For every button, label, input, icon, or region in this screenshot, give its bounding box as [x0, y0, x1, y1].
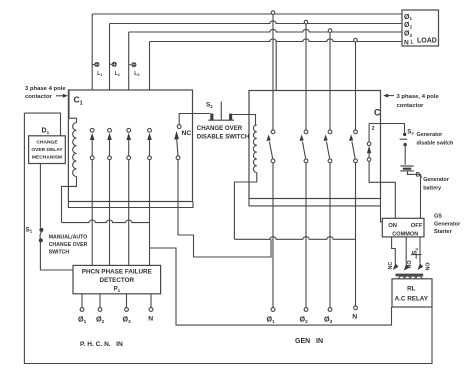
svg-text:COMMON: COMMON [392, 231, 418, 237]
wire border loop to D1 [24, 113, 60, 136]
load box LOAD [402, 10, 439, 47]
label GS generator starter [434, 214, 461, 236]
box D1 change over delay mechanism [29, 127, 66, 163]
svg-text:DETECTOR: DETECTOR [100, 277, 135, 284]
label generator disable switch [417, 132, 454, 146]
contactor C1 box [68, 90, 192, 202]
svg-text:CHANGE OVER: CHANGE OVER [197, 125, 243, 132]
switch S2 change over disable [206, 102, 256, 125]
wire bus phase2 [110, 21, 403, 24]
label change over disable switch [197, 125, 249, 141]
svg-text:GS: GS [434, 214, 442, 220]
contact S4 NO middle [404, 260, 413, 270]
wire C1 pole2 to P1 [109, 160, 111, 266]
wire neutral tap to C box top [275, 42, 277, 91]
svg-text:NC: NC [388, 262, 394, 270]
wire neutral tap to RL relay [150, 248, 392, 325]
svg-text:CHANGE: CHANGE [36, 140, 58, 146]
wire bus phase3 [129, 29, 402, 32]
wire drop GEN phase3 to C [329, 32, 331, 129]
svg-text:PHCN PHASE FAILURE: PHCN PHASE FAILURE [82, 269, 152, 276]
wire battery to GS off [408, 172, 421, 219]
svg-text:C: C [374, 108, 381, 118]
contact C pole1 [267, 130, 275, 163]
svg-text:A.C RELAY: A.C RELAY [395, 296, 429, 303]
svg-text:N: N [352, 314, 357, 321]
contact C1 pole1 [90, 128, 95, 159]
svg-text:S4: S4 [413, 247, 419, 254]
switch S1 manual auto [26, 164, 74, 271]
lamp L1 [92, 62, 102, 77]
svg-text:CHANGE OVER: CHANGE OVER [49, 242, 88, 248]
svg-text:L: L [411, 39, 414, 45]
wire drop PHCN neutral to C1 [149, 42, 151, 91]
contact C1 pole3 [126, 128, 131, 159]
label manual auto change over switch [49, 235, 88, 256]
svg-text:Generator: Generator [417, 132, 444, 138]
wire below C1 box to changeover circuit [68, 202, 193, 208]
svg-text:LOAD: LOAD [417, 38, 437, 45]
svg-text:SWITCH: SWITCH [49, 250, 70, 256]
wire C coil bottom to gen neutral with hops [234, 237, 355, 240]
wire bus phase1 [92, 13, 402, 15]
contact C1 pole4 [147, 128, 152, 159]
label PHCN IN [80, 341, 123, 348]
junction node gen neutral on bus4 [354, 38, 358, 42]
svg-text:3 phase, 4 pole: 3 phase, 4 pole [397, 94, 440, 100]
terminal PHCN neutral [148, 294, 153, 323]
svg-text:N: N [404, 40, 409, 47]
svg-text:MECHANISM: MECHANISM [32, 154, 62, 160]
svg-text:battery: battery [423, 186, 441, 192]
wire C pole3 to gen terminal [329, 163, 331, 308]
wire GS on to S4 NC [392, 237, 396, 264]
label C1 [74, 95, 83, 107]
wire C1 pole4 neutral to P1 [149, 160, 151, 266]
svg-text:NO: NO [407, 260, 413, 268]
junction node gen phase1 on bus1 [271, 11, 275, 15]
svg-text:OFF: OFF [411, 223, 423, 229]
svg-text:RL: RL [407, 286, 416, 293]
lamp L2 [110, 62, 120, 77]
label 3 phase 4 pole contactor left [25, 86, 68, 100]
svg-text:GEN IN: GEN IN [295, 338, 323, 345]
terminal PHCN phase2 [96, 294, 105, 324]
contact S4 NO right [418, 262, 432, 270]
svg-text:B1: B1 [416, 173, 423, 179]
terminal GEN phase2 [300, 308, 309, 324]
relay RL armature bar [396, 274, 424, 277]
junction node gen phase2 on bus2 [304, 20, 308, 24]
contact C1 pole2 [107, 128, 112, 159]
wire outer loop left and bottom border to RL [24, 113, 432, 363]
wire C pole2 to gen terminal [305, 163, 307, 308]
contact C pole2 [300, 130, 308, 163]
wire drop PHCN phase1 to C1 [91, 14, 93, 90]
aux contact 2 of contactor C [367, 124, 405, 219]
wire bus neutral [150, 39, 403, 42]
svg-text:contactor: contactor [25, 94, 53, 100]
svg-text:2: 2 [372, 126, 375, 132]
wire GS off to S4 NO [419, 237, 421, 264]
wire drop PHCN phase2 to C1 [109, 24, 111, 91]
contactor C box [249, 91, 381, 199]
wire NC bottom to gen neutral circuit [178, 160, 271, 257]
label GEN IN [295, 338, 323, 345]
wire GS common to S4 [405, 237, 407, 265]
junction node gen phase3 on bus3 [328, 29, 332, 33]
contact C pole3 [324, 130, 332, 163]
label C [374, 108, 381, 118]
svg-text:Starter: Starter [434, 229, 453, 235]
box P1 phase failure detector [73, 265, 161, 293]
battery B1 [400, 166, 423, 179]
contact S4 NC [388, 262, 398, 270]
svg-text:P. H. C. N. IN: P. H. C. N. IN [80, 341, 123, 348]
svg-text:Generator: Generator [434, 221, 461, 227]
svg-text:disable switch: disable switch [417, 140, 454, 146]
contact C pole4 [349, 130, 357, 163]
contact NC changeover disable [174, 114, 210, 160]
svg-text:MANUAL/AUTO: MANUAL/AUTO [49, 235, 88, 241]
wire C pole4 to gen terminal [355, 163, 357, 308]
wire C pole1 to gen terminal [272, 163, 274, 308]
wire C1 coil bottom to neutral with hops [62, 220, 150, 223]
terminal GEN phase1 [267, 308, 276, 324]
wire below C box to GS starter [249, 199, 381, 206]
wire drop GEN phase2 to C [305, 24, 307, 130]
terminal GEN phase3 [324, 308, 333, 324]
terminal PHCN phase3 [123, 294, 132, 324]
svg-text:N: N [148, 316, 153, 323]
svg-text:DISABLE SWITCH: DISABLE SWITCH [197, 134, 249, 141]
label 3 phase 4 pole contactor right [383, 94, 439, 109]
terminal GEN neutral [352, 306, 357, 321]
coil C1 [62, 91, 77, 223]
wire C box right edge to GS box [381, 199, 383, 223]
coil C [234, 125, 256, 239]
box GS generator starter [382, 218, 424, 237]
wire C1 pole1 to P1 [91, 160, 93, 266]
svg-text:NC: NC [182, 130, 192, 137]
svg-text:OVER DELAY: OVER DELAY [31, 147, 63, 153]
svg-text:Generator: Generator [423, 177, 450, 183]
switch S3 generator disable [400, 124, 415, 165]
svg-text:ON: ON [388, 223, 397, 229]
svg-text:S3: S3 [407, 129, 414, 135]
svg-text:NO: NO [426, 262, 432, 270]
relay RL box and coil [392, 276, 432, 307]
wire drop GEN phase1 to C [272, 14, 274, 129]
lamp L3 [129, 62, 140, 77]
terminal PHCN phase1 [78, 294, 87, 324]
wire drop GEN neutral to C [355, 42, 357, 130]
svg-text:3 phase 4 pole: 3 phase 4 pole [25, 86, 66, 92]
wire drop PHCN phase3 to C1 [128, 32, 130, 90]
label generator battery [423, 177, 450, 192]
wire C1 pole3 to P1 [128, 160, 130, 266]
switch S4 linkage [411, 247, 422, 258]
svg-text:contactor: contactor [397, 103, 425, 109]
